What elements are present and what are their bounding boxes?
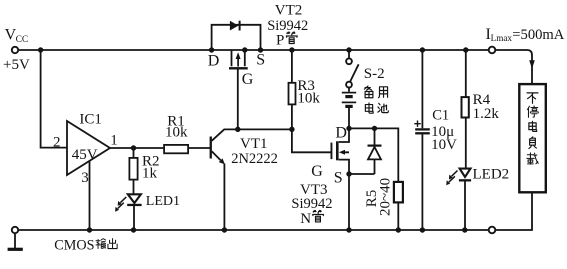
svg-text:N: N [300, 211, 311, 227]
svg-text:S-2: S-2 [364, 66, 385, 82]
svg-text:IC1: IC1 [79, 112, 102, 128]
svg-text:2N2222: 2N2222 [231, 151, 278, 167]
svg-text:D: D [208, 52, 220, 69]
svg-text:S: S [334, 170, 343, 187]
svg-text:Lmax: Lmax [491, 33, 513, 43]
svg-text:G: G [242, 71, 254, 88]
svg-text:G: G [311, 163, 323, 180]
svg-text:2: 2 [53, 134, 61, 150]
svg-text:1: 1 [110, 133, 118, 149]
svg-text:+5V: +5V [3, 57, 30, 73]
svg-text:P: P [276, 32, 284, 48]
svg-text:CMOS: CMOS [54, 238, 94, 254]
svg-text:S: S [256, 52, 265, 69]
svg-text:LED1: LED1 [146, 194, 180, 209]
svg-text:C1: C1 [432, 108, 449, 124]
svg-text:45V: 45V [72, 147, 98, 163]
svg-text:3: 3 [81, 170, 89, 186]
svg-text:10V: 10V [431, 137, 457, 153]
svg-text:CC: CC [16, 35, 29, 45]
svg-text:20~40: 20~40 [377, 178, 393, 216]
svg-text:LED2: LED2 [473, 166, 510, 182]
svg-text:VT1: VT1 [240, 136, 268, 152]
svg-text:=500mA: =500mA [512, 27, 564, 43]
svg-text:1k: 1k [142, 165, 158, 181]
svg-text:VT2: VT2 [275, 2, 303, 18]
svg-text:D: D [335, 124, 347, 141]
svg-text:Si9942: Si9942 [291, 196, 332, 212]
svg-text:10k: 10k [165, 125, 188, 141]
svg-text:10k: 10k [297, 91, 320, 107]
svg-text:1.2k: 1.2k [473, 106, 500, 122]
